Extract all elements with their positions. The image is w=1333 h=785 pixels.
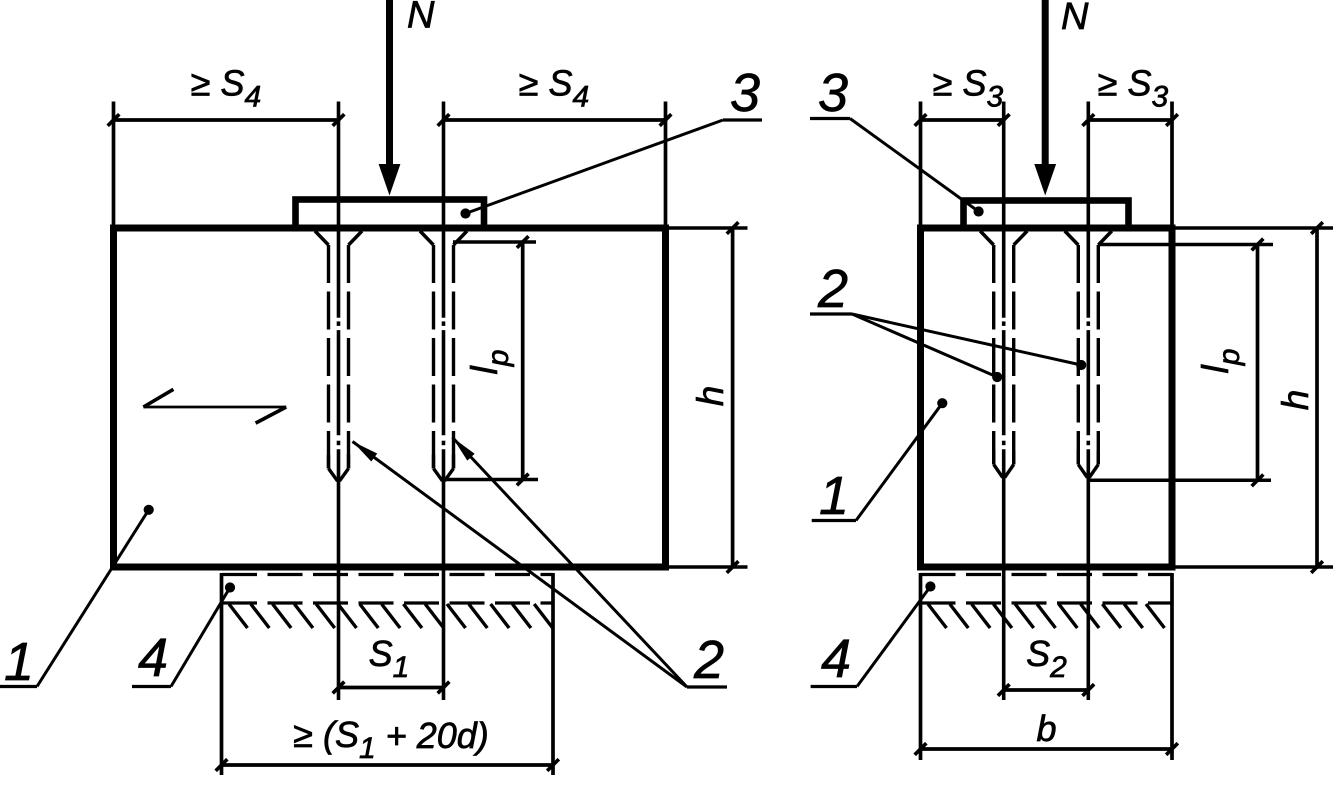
svg-text:3: 3 bbox=[730, 63, 760, 123]
svg-text:h: h bbox=[1275, 390, 1316, 411]
svg-text:N: N bbox=[407, 0, 435, 37]
svg-text:2: 2 bbox=[817, 259, 848, 319]
svg-text:b: b bbox=[1036, 708, 1056, 749]
svg-text:3: 3 bbox=[818, 63, 848, 123]
svg-text:4: 4 bbox=[138, 628, 168, 688]
svg-text:4: 4 bbox=[821, 629, 851, 689]
svg-text:1: 1 bbox=[4, 632, 34, 692]
svg-text:2: 2 bbox=[693, 630, 724, 690]
svg-text:h: h bbox=[690, 386, 731, 407]
svg-text:N: N bbox=[1061, 0, 1089, 38]
svg-text:1: 1 bbox=[819, 466, 849, 526]
